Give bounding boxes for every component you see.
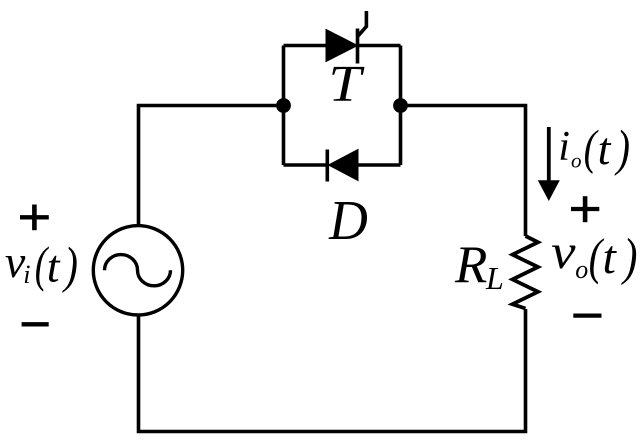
svg-text:o: o — [575, 255, 588, 284]
label: plus sign of vi(t) — [20, 205, 49, 231]
wire: lower-left vertical, bottom horizontal, lower-right vertical — [139, 309, 526, 432]
thyristor T cathode bar — [356, 29, 360, 64]
svg-text:t: t — [598, 123, 612, 174]
AC source V1 circle — [93, 226, 182, 315]
label: vi(t) source voltage — [5, 236, 78, 294]
svg-text:): ) — [614, 121, 630, 178]
wire: thyristor branch right segment — [358, 44, 401, 48]
node: right junction dot — [393, 98, 408, 113]
wire: thyristor branch left segment — [284, 44, 328, 48]
thyristor T gate lead — [358, 11, 367, 37]
label: RL load resistor designator — [454, 236, 504, 296]
svg-text:): ) — [62, 238, 78, 294]
svg-text:t: t — [47, 240, 61, 291]
diode D cathode bar — [325, 150, 329, 182]
resistor RL zigzag — [513, 236, 539, 309]
svg-text:D: D — [328, 189, 368, 251]
label: vo(t) output voltage — [551, 226, 637, 286]
svg-text:v: v — [551, 226, 576, 280]
wire: parallel-box left vertical — [282, 46, 286, 166]
wire: diode branch left segment — [284, 163, 329, 167]
label: plus sign of vo(t) — [571, 196, 599, 222]
svg-text:o: o — [571, 148, 582, 172]
svg-text:R: R — [454, 236, 487, 294]
svg-text:i: i — [23, 260, 30, 289]
node: left junction dot — [276, 98, 291, 113]
wire: diode branch right segment — [357, 163, 401, 167]
arrow: output current direction — [538, 127, 560, 201]
wire: top-left horizontal and upper-left vertical — [139, 106, 284, 227]
wire: top-right horizontal and upper-right vertical — [401, 106, 526, 237]
label: io(t) output current — [558, 120, 630, 177]
diode D triangle — [329, 150, 359, 181]
label: minus sign of vi(t) — [22, 322, 49, 326]
svg-text:T: T — [328, 56, 365, 113]
svg-text:L: L — [485, 260, 504, 296]
svg-text:i: i — [558, 124, 570, 170]
svg-text:(: ( — [584, 120, 599, 174]
svg-text:): ) — [621, 229, 638, 286]
AC source V1 sine symbol — [105, 255, 171, 286]
thyristor T triangle — [326, 30, 358, 62]
label: minus sign of vo(t) — [573, 313, 601, 317]
wire: parallel-box right vertical — [399, 46, 403, 166]
svg-text:t: t — [603, 231, 618, 284]
